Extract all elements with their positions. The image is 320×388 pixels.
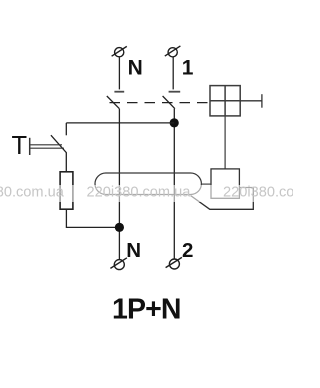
watermark row [0, 185, 320, 201]
link from actuator box to trip coil [224, 116, 226, 169]
fixed contact bar of N pole [114, 91, 124, 93]
svg-text:N: N [126, 239, 141, 262]
svg-text:1P+N: 1P+N [112, 294, 181, 326]
svg-text:220i380.com.ua: 220i380.com.ua [223, 185, 293, 201]
switch blade N pole [107, 96, 120, 109]
terminal bottom-right 2 (screw clamp symbol) [166, 257, 182, 269]
fixed contact bar of pole 1 [169, 91, 181, 93]
toroidal current transformer (stadium) [95, 173, 201, 195]
test button push rod (two parallel lines) [30, 145, 64, 148]
actuator end-stop bar [240, 94, 262, 108]
terminal bottom-left N (screw clamp symbol) [110, 258, 127, 270]
svg-text:220i380.com.ua: 220i380.com.ua [0, 185, 65, 201]
relay actuator box (quadrant box) [210, 86, 240, 116]
resistor R (test resistor) [60, 172, 73, 209]
terminal top-right 1 (screw clamp symbol) [165, 46, 181, 57]
wire from terminal N down to pole contact [118, 57, 120, 90]
test circuit horizontal wire [66, 122, 174, 124]
terminal top-left N (screw clamp symbol) [112, 46, 127, 56]
svg-text:T: T [12, 132, 28, 160]
watermark band (translucent strip) [0, 185, 293, 202]
test button cap bar [29, 138, 31, 155]
neutral wire (left vertical through toroid) [118, 109, 120, 260]
dashed mechanical coupling link [110, 102, 211, 104]
secondary winding return path [191, 188, 254, 210]
svg-text:220i380.com.ua: 220i380.com.ua [87, 185, 192, 201]
wire from resistor down and right to neutral [66, 209, 119, 227]
svg-text:2: 2 [182, 239, 193, 262]
connector toroid to trip coil box [201, 183, 211, 185]
phase wire (right vertical through toroid) [173, 109, 175, 260]
junction node on neutral wire [115, 223, 124, 232]
test switch fixed contact drop [65, 123, 67, 135]
test switch blade [51, 135, 66, 172]
junction node on phase wire (test circuit tap) [170, 118, 179, 127]
svg-text:1: 1 [182, 56, 194, 79]
switch blade pole 1 [163, 96, 175, 109]
trip coil box [211, 169, 239, 198]
wire from terminal 1 down to pole contact [172, 57, 174, 90]
svg-text:N: N [128, 57, 143, 80]
